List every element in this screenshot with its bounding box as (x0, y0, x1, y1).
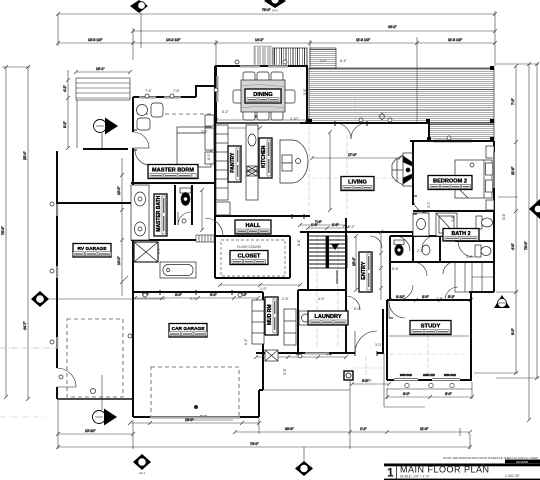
svg-text:A4-2: A4-2 (272, 9, 279, 13)
wall living/hall divide x=413 (412, 232, 414, 236)
dining table group (233, 72, 295, 120)
study windows bottom (387, 373, 472, 389)
svg-text:76'-0": 76'-0" (1, 226, 5, 235)
svg-text:5'-6": 5'-6" (392, 267, 400, 271)
powder toilet (458, 241, 491, 257)
svg-text:6'-0": 6'-0" (354, 307, 362, 311)
label MUD RM vertical (265, 297, 278, 335)
kitchen island (280, 140, 308, 183)
svg-text:1'-2": 1'-2" (360, 427, 368, 431)
bath2 shower (436, 213, 457, 236)
svg-text:44'-7": 44'-7" (23, 321, 27, 330)
svg-text:5'-2": 5'-2" (222, 110, 230, 114)
svg-text:11'-8": 11'-8" (420, 427, 429, 431)
svg-text:MUD RM: MUD RM (267, 304, 273, 325)
wall closet right (289, 236, 291, 278)
svg-text:8'-2": 8'-2" (63, 120, 67, 128)
deck main hatched (254, 46, 494, 141)
wall bedroom wing mid (440, 261, 494, 263)
wall rv garage top (57, 202, 133, 204)
wall garage front jog (132, 390, 134, 417)
diamond left edge (31, 291, 165, 307)
dimension entry porch (350, 353, 425, 407)
svg-text:2'-10": 2'-10" (290, 117, 299, 121)
entry dims (352, 230, 383, 300)
wall hall top (215, 215, 310, 217)
bedroom2 window (434, 140, 472, 142)
svg-text:6'-4": 6'-4" (340, 59, 348, 63)
label PANTRY vertical (228, 146, 241, 182)
wall hallway bottom y=300 (387, 299, 471, 301)
svg-text:CAR GARAGE: CAR GARAGE (172, 326, 206, 332)
wall study right (470, 292, 472, 380)
stairs main (308, 236, 347, 284)
dimension chain left inner x=68 (63, 70, 70, 150)
tub (160, 262, 196, 278)
dimension line left outer (1, 65, 30, 401)
wall entry right (345, 218, 347, 353)
wall porch col x=77 (76, 100, 78, 148)
wall laundry bottom (256, 352, 355, 354)
svg-text:13'-8 1/2": 13'-8 1/2" (88, 38, 103, 42)
svg-text:9'-0": 9'-0" (210, 293, 218, 297)
dimension porch bottom right (385, 382, 474, 399)
wall bath bottom (131, 239, 196, 241)
svg-text:40'-2": 40'-2" (388, 25, 397, 29)
fireplace living corner (392, 153, 413, 186)
svg-text:2'-0": 2'-0" (157, 246, 161, 254)
label CAR GARAGE (169, 324, 207, 338)
svg-text:3'-0": 3'-0" (466, 255, 474, 259)
wall hall bottom / closet top (215, 235, 290, 237)
svg-text:2'-6": 2'-6" (282, 297, 290, 301)
label MASTER BATH vertical (154, 194, 167, 236)
wall stair/entry top (300, 231, 413, 233)
label BATH 2 (443, 229, 479, 242)
deck posts (308, 119, 312, 123)
label LIVING (341, 177, 374, 191)
wall dining left (215, 66, 217, 123)
label MASTER BDRM (148, 165, 198, 179)
svg-text:9'-0": 9'-0" (190, 297, 198, 301)
svg-text:7'-6": 7'-6" (173, 89, 181, 93)
hallway door arcs (395, 236, 494, 300)
wall garage top (133, 291, 263, 293)
wall porch front thin (263, 389, 350, 391)
diamond right edge half (529, 199, 540, 219)
svg-text:7'-0": 7'-0" (511, 97, 515, 105)
svg-text:8'-0": 8'-0" (207, 152, 211, 160)
svg-text:3'-0": 3'-0" (375, 343, 383, 347)
label HALL (235, 220, 271, 234)
fridge (216, 202, 230, 215)
steps strip closet (196, 235, 214, 242)
wall master top notch (195, 85, 197, 97)
svg-text:16'-1": 16'-1" (96, 67, 105, 71)
entry door arc (355, 331, 377, 353)
dimension line top 1 (56, 12, 497, 16)
svg-text:MASTER BDRM: MASTER BDRM (152, 168, 194, 174)
svg-text:LAUNDRY: LAUNDRY (314, 314, 341, 320)
svg-text:CLOSET: CLOSET (238, 254, 261, 260)
svg-text:11'-6": 11'-6" (511, 166, 515, 175)
bedroom2 door (413, 198, 428, 213)
fixtures: master wc toilet (175, 185, 204, 232)
svg-text:9050 SGD: 9050 SGD (400, 373, 412, 377)
svg-text:4'-6": 4'-6" (511, 242, 515, 250)
dimension lines bottom (56, 380, 472, 449)
dimension line top 2 (131, 29, 497, 33)
svg-text:3'-1": 3'-1" (427, 200, 431, 208)
svg-text:5'-0": 5'-0" (365, 379, 373, 383)
svg-text:BATH 2: BATH 2 (451, 231, 470, 237)
svg-text:76'-0": 76'-0" (524, 241, 528, 250)
svg-text:SCALE: 1/4" = 1'-0": SCALE: 1/4" = 1'-0" (400, 475, 430, 479)
wall closet bottom (215, 277, 290, 279)
svg-text:9'-0": 9'-0" (511, 327, 515, 335)
svg-text:6'-2": 6'-2" (244, 337, 248, 345)
label LAUNDRY (308, 311, 348, 325)
living doors to deck (335, 123, 367, 139)
wall dining right (306, 66, 308, 123)
svg-text:BEDROOM 2: BEDROOM 2 (433, 179, 467, 185)
entry closet (346, 236, 382, 310)
wall left column x=215 (214, 66, 216, 278)
svg-text:MAIN FLOOR PLAN: MAIN FLOOR PLAN (400, 465, 490, 475)
svg-text:2'-2": 2'-2" (348, 225, 356, 229)
wall master/bath divide (131, 182, 215, 184)
study door (389, 302, 405, 318)
tiny deck diamond (379, 113, 385, 120)
svg-text:3'-6": 3'-6" (201, 130, 209, 134)
porch column (344, 371, 353, 380)
svg-text:A4-1: A4-1 (139, 471, 146, 475)
svg-text:2'-6": 2'-6" (436, 297, 444, 301)
wall hall-bath dividers (390, 236, 494, 262)
fireplace chimney x-box (134, 242, 158, 262)
svg-text:RV GARAGE: RV GARAGE (78, 246, 108, 252)
steps top-left (76, 78, 130, 100)
porch door arc (135, 150, 150, 165)
gray dashed furniture / stalls (67, 114, 239, 417)
dimension line steps top-left (74, 67, 132, 74)
master bdrm door arc (133, 132, 149, 148)
svg-text:14'-0": 14'-0" (117, 256, 121, 265)
wall mud laundry divide (297, 290, 299, 353)
dimension hall rows right wing (388, 295, 473, 302)
svg-text:2'-8": 2'-8" (417, 249, 425, 253)
wall master top (133, 96, 196, 98)
svg-text:ENTRY: ENTRY (361, 261, 367, 279)
wall bedroom2 right (493, 141, 495, 292)
label STUDY (410, 321, 451, 335)
dimension line top 3 (56, 8, 497, 45)
svg-text:4'-2": 4'-2" (63, 84, 67, 92)
diamond bottom 2 (295, 447, 313, 476)
svg-text:5'-2": 5'-2" (448, 295, 456, 299)
svg-text:9'-0": 9'-0" (445, 392, 453, 396)
label CLOSET (230, 245, 268, 265)
svg-text:14'-2 1/2": 14'-2 1/2" (166, 38, 181, 42)
dimension garage top row (133, 293, 260, 300)
closet dashed inner (221, 240, 285, 276)
svg-text:MASTER BATH: MASTER BATH (156, 195, 162, 231)
hall west door arc (205, 218, 223, 236)
diamond bottom 1 (133, 454, 151, 475)
svg-text:9'-6": 9'-6" (303, 87, 307, 95)
wall entry left front (382, 309, 384, 353)
property dash line left (0, 347, 57, 349)
wall master left (132, 97, 134, 132)
master sitting (137, 103, 164, 130)
svg-text:9'-0": 9'-0" (175, 293, 183, 297)
wall rv garage left (56, 151, 58, 368)
wall porch top-left y=150 (83, 148, 128, 150)
window circles on walls (50, 60, 474, 358)
wall right step-in (469, 291, 494, 293)
svg-text:STUDY: STUDY (421, 324, 441, 330)
svg-text:6050 FXD: 6050 FXD (423, 373, 435, 377)
kitchen pantry shelves (216, 125, 228, 200)
diamond bottom-left walk (93, 375, 118, 426)
label BEDROOM 2 (428, 176, 472, 190)
bath2 vanity (413, 213, 429, 236)
hall-bath fixtures (394, 240, 430, 256)
svg-text:4'-0": 4'-0" (318, 297, 326, 301)
bedroom2 bed (455, 146, 494, 210)
garage door dot (194, 405, 198, 409)
wall dining top (215, 65, 308, 67)
dimension laundry bottom row (254, 352, 348, 359)
label RV GARAGE (73, 244, 111, 258)
svg-text:2,402 SF: 2,402 SF (505, 474, 520, 478)
wall bath2 top (413, 210, 494, 212)
wall bedroom2 top (410, 140, 494, 142)
svg-text:17'-8": 17'-8" (348, 153, 357, 157)
wall study bottom (387, 379, 472, 381)
dimension lines right side (474, 62, 539, 422)
svg-text:8'-6": 8'-6" (297, 238, 301, 246)
svg-text:1: 1 (387, 466, 394, 480)
wall stair left (307, 232, 309, 290)
extension lines top (58, 11, 495, 123)
svg-text:16'-4": 16'-4" (352, 257, 356, 266)
svg-text:DINING: DINING (253, 92, 273, 98)
svg-text:4'-6": 4'-6" (502, 212, 506, 220)
wall living top (deck edge) (300, 122, 429, 124)
wall powder top (455, 240, 494, 242)
svg-text:76'-0": 76'-0" (250, 442, 259, 446)
svg-text:10'-10": 10'-10" (85, 429, 96, 433)
svg-text:3'-0": 3'-0" (320, 59, 328, 63)
blue construction lines (309, 95, 468, 381)
mud x-box (265, 350, 278, 361)
svg-text:KITCHEN: KITCHEN (261, 145, 267, 168)
mud rm bench (252, 300, 264, 344)
label KITCHEN vertical (259, 138, 272, 178)
dimension kitchen top row (214, 115, 309, 130)
wall bedroom2 left (412, 141, 414, 205)
wall garage shared x=133 (132, 203, 134, 292)
svg-text:25'-4": 25'-4" (23, 151, 27, 160)
opening ticks (133, 121, 417, 356)
svg-text:9'-0": 9'-0" (403, 392, 411, 396)
fixtures: master bath vanity (131, 185, 149, 240)
svg-text:10'-0": 10'-0" (117, 186, 121, 195)
master bed (177, 115, 214, 167)
svg-text:36'-8": 36'-8" (285, 427, 294, 431)
svg-text:14'-2": 14'-2" (255, 38, 264, 42)
svg-text:11'-8 1/2": 11'-8 1/2" (356, 38, 371, 42)
wall windows double lines (56, 65, 495, 419)
laundry appliances (284, 309, 312, 345)
svg-text:PANTRY: PANTRY (230, 152, 236, 173)
wall mud rm left garage right (262, 292, 264, 390)
wall bath2 bottom (413, 235, 455, 237)
svg-text:7'-6": 7'-6" (315, 220, 323, 224)
svg-text:LEGEND: LEGEND (516, 460, 529, 464)
wall study left (386, 300, 388, 380)
wall hallway left x=390 (389, 236, 391, 300)
svg-text:76'-0": 76'-0" (262, 8, 271, 12)
svg-text:3'-6": 3'-6" (422, 295, 430, 299)
svg-text:11'-8 1/2": 11'-8 1/2" (448, 38, 463, 42)
rv garage door arc bottom-left (57, 368, 76, 387)
wall bottom left (57, 398, 133, 400)
kitchen counter strip (246, 125, 258, 200)
wall hallway top y=236 (390, 235, 455, 237)
svg-text:9050 SGD: 9050 SGD (444, 373, 456, 377)
diamond porch left (94, 118, 119, 151)
svg-text:FLUSH CEILING: FLUSH CEILING (237, 245, 262, 249)
svg-text:3'-4": 3'-4" (451, 214, 455, 222)
wall deck right vertical (428, 123, 430, 141)
wall laundry top (298, 289, 346, 291)
label DINING (245, 89, 281, 103)
diamond top 1 (130, 0, 148, 14)
wall kitchen top (216, 122, 307, 124)
svg-text:HALL: HALL (246, 223, 261, 229)
dimension chain x=122 rv garage (117, 158, 128, 296)
svg-text:5'-8": 5'-8" (283, 367, 287, 375)
living dims (298, 130, 402, 227)
wall stair bottom (308, 289, 346, 291)
study mid line (389, 335, 469, 337)
corridor dim row (218, 283, 302, 287)
bath2 toilet (476, 216, 493, 229)
diamond right mid (triangle up) (494, 295, 510, 308)
svg-text:3'-10": 3'-10" (396, 295, 405, 299)
stair dim ticks top (306, 223, 349, 230)
label ENTRY vertical (359, 252, 372, 292)
svg-text:1'-0": 1'-0" (260, 287, 268, 291)
svg-text:7'-6": 7'-6" (145, 89, 153, 93)
scattered small dims (145, 59, 506, 383)
diamond top 2 (264, 0, 286, 13)
svg-text:LIVING: LIVING (348, 180, 367, 186)
